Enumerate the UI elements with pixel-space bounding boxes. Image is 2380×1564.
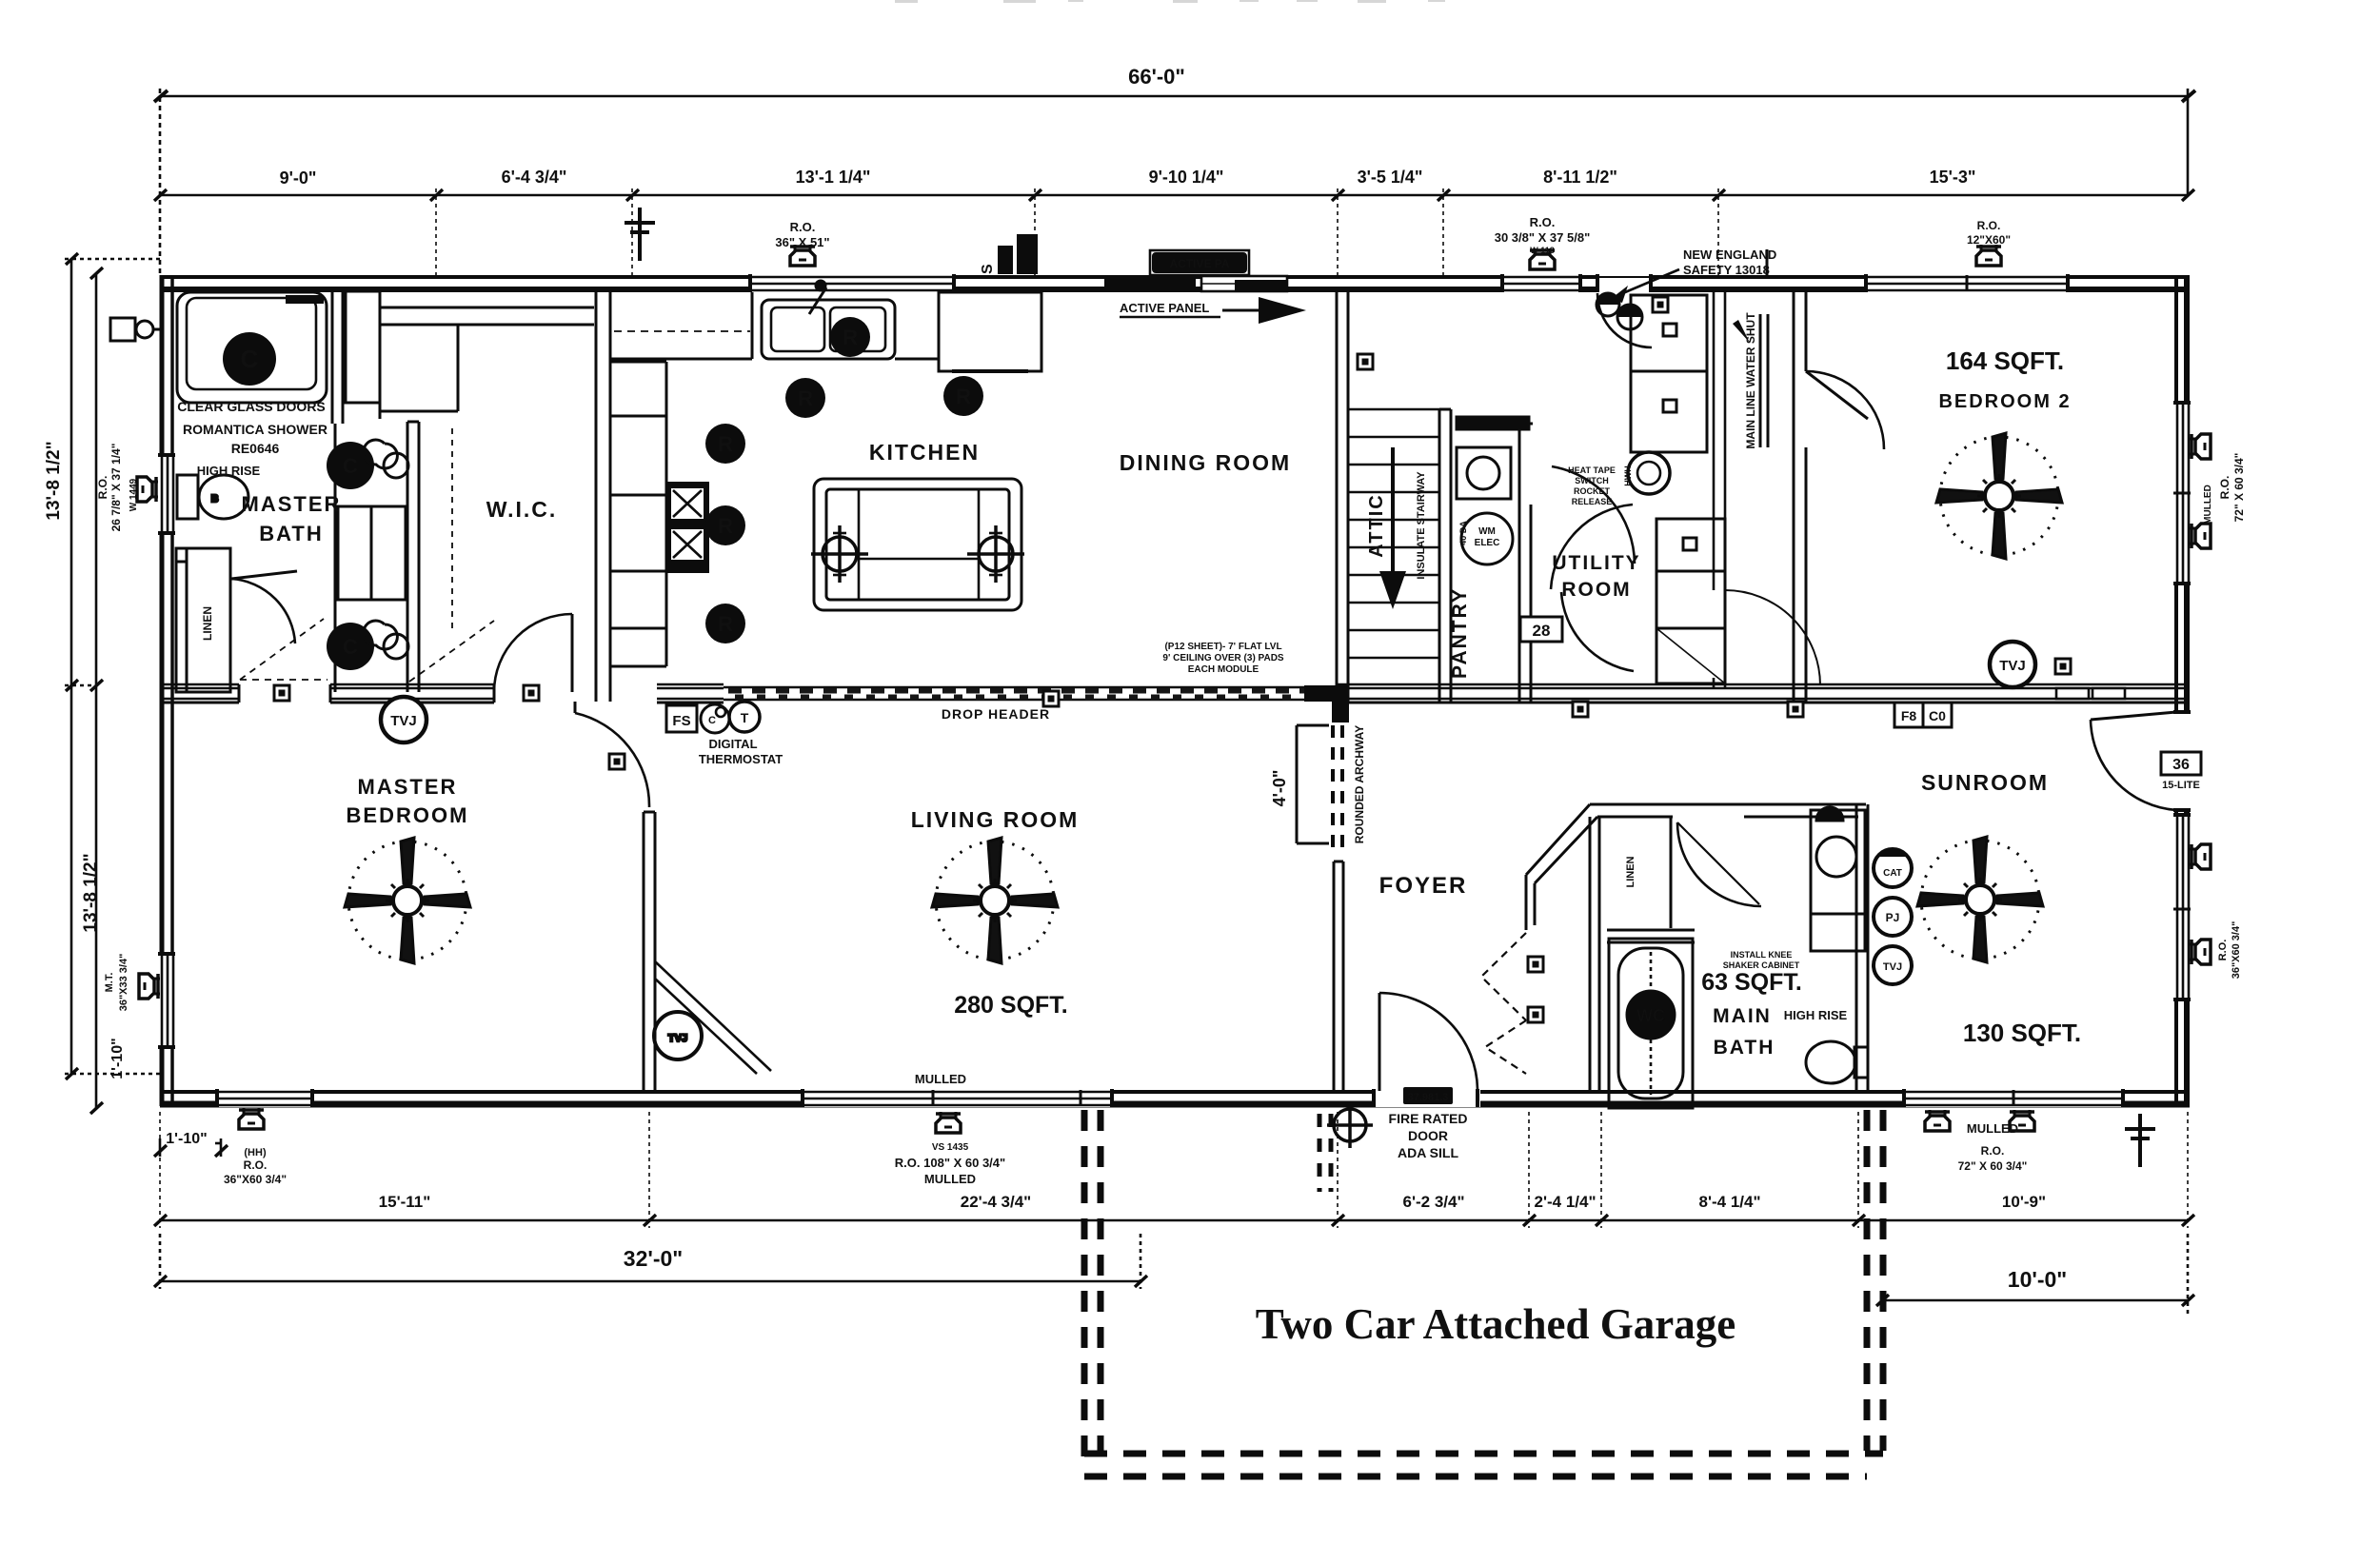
vanity sink upper <box>327 440 408 489</box>
svg-text:10'-9": 10'-9" <box>2002 1193 2046 1211</box>
stair treads <box>1348 409 1439 658</box>
bottom dimension 1'-10" <box>160 1138 221 1157</box>
box 28 <box>1520 617 1562 642</box>
pantry wall right <box>1519 424 1533 702</box>
recessed light kitchen 5 <box>705 604 745 643</box>
wall linen closet master bath <box>176 548 230 692</box>
thermostat trio FS CO T <box>666 702 760 733</box>
svg-text:FOYER: FOYER <box>1379 873 1468 899</box>
svg-text:W 118: W 118 <box>1530 246 1555 255</box>
window crank utility top <box>1530 248 1555 269</box>
door opening right wall sunroom 15-lite <box>2091 712 2192 810</box>
marriage wall band left section <box>160 684 724 703</box>
label mulled bedroom2 right window <box>2203 453 2246 525</box>
kitchen counter right of sink <box>895 292 1041 371</box>
window right wall sunroom <box>2173 815 2191 1000</box>
top segment dimension line <box>160 188 2188 276</box>
svg-text:RELEASE: RELEASE <box>1572 497 1613 506</box>
svg-text:1'-10": 1'-10" <box>166 1131 207 1147</box>
svg-text:ACTIVE PANEL: ACTIVE PANEL <box>1120 301 1209 315</box>
window left wall master bath <box>158 455 175 533</box>
window crank bedroom2 right upper <box>2190 434 2211 459</box>
ceiling fan bedroom2 <box>1936 433 2062 559</box>
outer wall bottom <box>160 1092 2190 1104</box>
svg-text:R.O.: R.O. <box>2217 940 2229 961</box>
svg-text:KITCHEN: KITCHEN <box>869 440 980 465</box>
label shower notes <box>177 399 327 456</box>
label install shaker cabinet <box>1723 950 1800 970</box>
outer wall left <box>162 275 172 1106</box>
svg-text:4'-0": 4'-0" <box>1270 770 1289 807</box>
window bottom wall living room mulled <box>803 1089 1112 1107</box>
kitchen island <box>814 479 1021 610</box>
door label 36 15-LITE <box>2161 752 2201 791</box>
svg-text:6'-2 3/4": 6'-2 3/4" <box>1402 1193 1464 1211</box>
wall hallway-bedroom2 <box>1794 291 1806 702</box>
svg-text:DIGITAL: DIGITAL <box>708 737 757 751</box>
svg-text:R.O.: R.O. <box>1530 215 1556 229</box>
svg-text:S: S <box>980 264 996 274</box>
kitchen cabinets left column <box>610 362 666 666</box>
svg-text:36: 36 <box>2172 757 2190 773</box>
svg-text:C: C <box>343 635 358 659</box>
kitchen sink <box>762 281 895 359</box>
recessed light kitchen 4 <box>705 505 745 545</box>
label mulled sunroom bottom window <box>1958 1121 2028 1173</box>
smoke detectors pair utility <box>1597 293 1642 329</box>
RO 30 3/8 note above utility <box>1495 215 1591 255</box>
svg-text:R.O.: R.O. <box>1981 1144 2005 1158</box>
svg-text:130 SQFT.: 130 SQFT. <box>1963 1019 2081 1047</box>
svg-text:HIGH RISE: HIGH RISE <box>1784 1008 1848 1022</box>
plumbing vent kitchen <box>625 208 655 261</box>
main bath door arc <box>1677 822 1761 906</box>
junction box left wall upper <box>110 318 162 341</box>
svg-text:HEAT TAPE: HEAT TAPE <box>1568 465 1616 475</box>
svg-text:10'-0": 10'-0" <box>2008 1267 2067 1292</box>
label master bedroom <box>347 775 469 827</box>
WIC closet shelf top <box>380 291 594 628</box>
svg-text:BEDROOM 2: BEDROOM 2 <box>1938 391 2071 412</box>
svg-text:ROOM: ROOM <box>1561 579 1631 601</box>
svg-text:164 SQFT.: 164 SQFT. <box>1946 346 2064 375</box>
outer wall right <box>2176 275 2187 1106</box>
svg-text:SWITCH: SWITCH <box>1575 476 1609 485</box>
bottom dimension 32'-0" <box>160 1234 1140 1289</box>
svg-text:15'-3": 15'-3" <box>1930 168 1976 187</box>
window crank left wall bedroom <box>139 974 160 999</box>
svg-text:WC: WC <box>1636 1006 1665 1025</box>
garage dashed wall right <box>1867 1110 1883 1451</box>
window crank master bedroom bottom <box>239 1108 264 1129</box>
new england safety note <box>1611 247 1776 303</box>
svg-text:PJ: PJ <box>1886 911 1900 924</box>
svg-text:NEW ENGLAND: NEW ENGLAND <box>1683 247 1776 262</box>
svg-text:R.O.: R.O. <box>1977 219 2001 232</box>
svg-text:(P12 SHEET)- 7' FLAT LVL: (P12 SHEET)- 7' FLAT LVL <box>1164 642 1281 652</box>
label master bath <box>242 492 342 545</box>
window crank sunroom right upper <box>2190 844 2211 869</box>
attic arrow <box>1366 447 1427 609</box>
plumbing vent dining top SM <box>980 234 1038 274</box>
svg-text:ROCKET: ROCKET <box>1574 486 1611 496</box>
svg-text:30 3/8" X 37 5/8": 30 3/8" X 37 5/8" <box>1495 230 1591 245</box>
svg-text:C: C <box>241 345 259 373</box>
svg-text:EACH MODULE: EACH MODULE <box>1188 664 1259 675</box>
svg-text:MULLED: MULLED <box>2203 485 2213 525</box>
kitchen upper cabinet dashed line <box>614 330 750 332</box>
svg-text:C: C <box>343 454 358 478</box>
main bath north wall <box>1590 804 1866 817</box>
svg-text:MAIN LINE WATER SHUT: MAIN LINE WATER SHUT <box>1744 312 1757 449</box>
svg-text:37.981.3: 37.981.3 <box>1408 1092 1449 1103</box>
ceiling fan sunroom <box>1917 837 2043 962</box>
master bedroom corner shelf <box>654 961 771 1074</box>
svg-text:INSULATE STAIRWAY: INSULATE STAIRWAY <box>1416 471 1427 580</box>
svg-text:63 SQFT.: 63 SQFT. <box>1701 969 1802 996</box>
svg-text:DINING ROOM: DINING ROOM <box>1120 450 1291 475</box>
garage step dashes <box>1319 1114 1331 1192</box>
svg-text:MULLED: MULLED <box>1967 1121 2018 1136</box>
wall WIC left <box>407 422 419 692</box>
svg-text:40 DA: 40 DA <box>1458 521 1468 545</box>
RO 36x51 kitchen window note <box>775 220 829 249</box>
svg-text:CLEAR GLASS DOORS: CLEAR GLASS DOORS <box>177 399 326 414</box>
svg-text:15'-11": 15'-11" <box>379 1193 431 1211</box>
window right wall bedroom2 mulled <box>2173 403 2191 584</box>
main line water shut note <box>1733 312 1768 449</box>
tub main bath <box>1609 939 1693 1108</box>
window bottom wall master bedroom <box>217 1089 312 1107</box>
svg-text:72" X 60 3/4": 72" X 60 3/4" <box>2232 453 2246 523</box>
svg-text:MASTER: MASTER <box>358 775 458 799</box>
wall foyer west <box>1334 861 1343 1092</box>
window crank left wall bath <box>137 477 158 502</box>
RO 12x60 note bedroom2 <box>1967 219 2011 247</box>
active panel arrow note <box>1120 297 1306 324</box>
island pendant symbol left <box>811 525 868 583</box>
svg-text:THERMOSTAT: THERMOSTAT <box>699 752 783 766</box>
svg-text:15-LITE: 15-LITE <box>2162 780 2200 791</box>
front door porch symbol <box>1327 1102 1373 1148</box>
svg-text:UTILITY: UTILITY <box>1552 552 1640 574</box>
window left wall master bedroom <box>158 954 175 1047</box>
label fire rated door <box>1389 1087 1468 1160</box>
outer wall top <box>160 277 2190 289</box>
svg-text:36" X 51": 36" X 51" <box>775 235 829 249</box>
svg-text:BEDROOM: BEDROOM <box>347 803 469 827</box>
bottom dimension 10'-0" <box>1882 1234 2188 1314</box>
svg-text:FS: FS <box>672 713 690 729</box>
pantry washer box <box>1457 417 1529 499</box>
svg-text:9'-0": 9'-0" <box>280 168 317 188</box>
window crank bedroom2 right lower <box>2190 524 2211 548</box>
window crank sunroom bottom left <box>1925 1110 1950 1131</box>
svg-text:C: C <box>708 715 716 726</box>
svg-text:TVJ: TVJ <box>668 1033 687 1044</box>
island pendant symbol right <box>967 525 1024 583</box>
wall living-master bedroom <box>644 812 655 1092</box>
svg-text:HWH: HWH <box>1623 465 1633 486</box>
svg-text:R.O.: R.O. <box>2218 476 2231 500</box>
svg-text:LIVING ROOM: LIVING ROOM <box>911 807 1080 832</box>
svg-text:66'-0": 66'-0" <box>1128 65 1185 89</box>
svg-text:36"X60 3/4": 36"X60 3/4" <box>2231 921 2242 980</box>
shower light C <box>223 332 276 386</box>
door opening bottom wall fire rated door <box>1374 993 1480 1107</box>
svg-text:TVJ: TVJ <box>1883 961 1902 973</box>
sink cabinet main bath <box>1811 807 1865 951</box>
phone jacks column sunroom wall <box>1874 849 1912 984</box>
svg-text:BATH: BATH <box>1714 1037 1775 1059</box>
garage dashed wall left <box>1084 1110 1101 1456</box>
window bottom wall sunroom mulled <box>1904 1089 2123 1107</box>
svg-text:(HH): (HH) <box>244 1147 267 1158</box>
cropped title remnants top <box>895 0 1445 3</box>
svg-text:INSTALL KNEE: INSTALL KNEE <box>1731 950 1793 960</box>
label sunroom right window <box>2217 921 2242 980</box>
stairway right wall <box>1439 409 1451 702</box>
refrigerator dining side counter <box>1041 292 1043 362</box>
svg-text:MULLED: MULLED <box>915 1072 966 1086</box>
recessed light kitchen sink <box>830 317 870 357</box>
svg-text:R.O.: R.O. <box>790 220 816 234</box>
svg-text:LINEN: LINEN <box>201 606 214 641</box>
label heat tape switch <box>1568 465 1616 506</box>
svg-text:ACTIVE PA: ACTIVE PA <box>1169 257 1229 270</box>
vanity sink lower <box>327 621 408 670</box>
vanity master bath <box>335 424 406 692</box>
toilet master bath <box>177 475 248 519</box>
foyer closet bifold doors dashed <box>1481 933 1526 1074</box>
window utility top wall <box>1502 274 1580 292</box>
svg-text:SUNROOM: SUNROOM <box>1921 770 2049 795</box>
svg-text:28: 28 <box>1533 622 1551 640</box>
marriage wall band foyer-right section <box>1336 684 1799 703</box>
rounded archway columns <box>1297 725 1342 850</box>
water heater circle <box>1623 452 1670 494</box>
wall master bath right / shower side <box>332 291 343 424</box>
svg-text:36"X60 3/4": 36"X60 3/4" <box>224 1173 287 1186</box>
label RO master bedroom window <box>224 1147 287 1186</box>
label utility room <box>1552 552 1640 601</box>
WM ELEC circle <box>1458 513 1513 564</box>
ceiling fan living room <box>932 838 1058 963</box>
svg-text:8'-11 1/2": 8'-11 1/2" <box>1543 168 1617 187</box>
kitchen range burners <box>665 482 709 573</box>
utility room door arcs <box>1552 466 1635 564</box>
svg-text:T: T <box>741 710 749 725</box>
svg-text:13'-8 1/2": 13'-8 1/2" <box>81 853 101 932</box>
svg-text:R.O. 108" X 60 3/4": R.O. 108" X 60 3/4" <box>895 1156 1005 1170</box>
svg-text:RE0646: RE0646 <box>231 441 280 456</box>
marriage wall drop header hatched band <box>724 685 1349 723</box>
svg-text:13'-8 1/2": 13'-8 1/2" <box>44 441 64 520</box>
window bedroom2 top wall <box>1866 274 2068 292</box>
svg-text:Two Car Attached Garage: Two Car Attached Garage <box>1256 1300 1736 1348</box>
window crank sunroom right lower <box>2190 940 2211 964</box>
shower master bath <box>177 292 327 403</box>
window crank living room bottom <box>936 1112 961 1133</box>
main bath east wall <box>1856 804 1868 1092</box>
WIC door arc <box>494 614 572 692</box>
svg-text:M.T.: M.T. <box>104 973 115 993</box>
kitchen top counter <box>610 292 752 359</box>
svg-text:LINEN: LINEN <box>1625 856 1636 887</box>
svg-text:SAFETY 13018: SAFETY 13018 <box>1683 263 1770 277</box>
window crank kitchen <box>790 245 815 266</box>
svg-text:WM: WM <box>1478 526 1496 537</box>
label dining ceiling note <box>1162 642 1284 675</box>
digital thermostat note <box>699 737 783 766</box>
svg-text:MASTER: MASTER <box>242 492 342 516</box>
svg-text:C0: C0 <box>1929 708 1946 723</box>
svg-text:R.O.: R.O. <box>96 476 109 500</box>
svg-text:HIGH RISE: HIGH RISE <box>197 464 261 478</box>
svg-text:2'-4 1/4": 2'-4 1/4" <box>1534 1193 1596 1211</box>
master bath door arc <box>231 579 295 643</box>
bottom dimension row 1 <box>160 1112 2188 1228</box>
window crank bedroom2 top <box>1976 245 2001 266</box>
svg-text:MAIN: MAIN <box>1713 1005 1772 1027</box>
wall WIC right / kitchen <box>596 291 610 702</box>
label RO living room window <box>895 1142 1005 1186</box>
svg-text:BATH: BATH <box>259 522 323 545</box>
svg-text:B: B <box>211 494 218 505</box>
svg-text:CAT: CAT <box>1883 868 1902 879</box>
svg-text:VS 1435: VS 1435 <box>932 1142 969 1153</box>
active panel black label <box>1150 250 1249 275</box>
svg-text:PANTRY: PANTRY <box>1449 587 1471 679</box>
svg-text:72" X 60 3/4": 72" X 60 3/4" <box>1958 1159 2028 1173</box>
main bath angled wall <box>1526 804 1597 930</box>
bedroom2 closet door arc <box>1806 371 1884 449</box>
svg-text:1'-10": 1'-10" <box>109 1038 126 1079</box>
wall dining right / stairway left <box>1337 291 1348 702</box>
label main bath <box>1713 1005 1775 1059</box>
svg-text:26 7/8" X 37 1/4": 26 7/8" X 37 1/4" <box>109 444 123 532</box>
svg-text:MULLED: MULLED <box>924 1172 976 1186</box>
window dining top wall dark panels <box>1104 276 1288 291</box>
door top wall utility rear entry <box>1597 274 1652 347</box>
svg-text:9'-10 1/4": 9'-10 1/4" <box>1149 168 1224 187</box>
overall dimension line 66'-0" <box>154 89 2195 276</box>
recessed light kitchen 3 <box>705 424 745 464</box>
svg-text:36"X33 3/4": 36"X33 3/4" <box>118 954 129 1012</box>
svg-text:SHAKER CABINET: SHAKER CABINET <box>1723 960 1800 970</box>
cabinet between shower and WIC <box>346 291 380 403</box>
utility tall cabinet right <box>1656 519 1725 683</box>
svg-text:ATTIC: ATTIC <box>1366 493 1387 557</box>
svg-text:FIRE RATED: FIRE RATED <box>1389 1111 1468 1126</box>
window crank sunroom bottom right <box>2010 1110 2034 1131</box>
linen closet main bath <box>1607 817 1695 942</box>
main bath west wall <box>1590 817 1599 1092</box>
svg-text:ADA SILL: ADA SILL <box>1398 1145 1458 1160</box>
svg-text:9' CEILING OVER (3) PADS: 9' CEILING OVER (3) PADS <box>1162 653 1284 663</box>
svg-text:DROP HEADER: DROP HEADER <box>942 706 1050 722</box>
svg-text:22'-4 3/4": 22'-4 3/4" <box>961 1193 1031 1211</box>
toilet main bath <box>1806 1041 1868 1083</box>
svg-text:R.O.: R.O. <box>244 1158 268 1172</box>
garage dashed wall bottom <box>1084 1454 1883 1476</box>
svg-text:W.I.C.: W.I.C. <box>486 497 558 522</box>
ceiling fan master bedroom <box>345 838 470 963</box>
F8 C0 boxes <box>1894 703 1952 727</box>
svg-text:ELEC: ELEC <box>1475 538 1500 548</box>
svg-text:12"X60": 12"X60" <box>1967 233 2011 247</box>
svg-text:3'-5 1/4": 3'-5 1/4" <box>1358 168 1423 187</box>
plumbing vent sunroom right <box>2125 1114 2155 1167</box>
svg-text:ROMANTICA SHOWER: ROMANTICA SHOWER <box>183 422 327 437</box>
utility closet cabinets upper <box>1631 291 1820 687</box>
outlet boxes along marriage wall <box>274 685 289 701</box>
left dimension line 13'-8 1/2" upper <box>65 259 162 1108</box>
svg-text:6'-4 3/4": 6'-4 3/4" <box>502 168 567 187</box>
master bedroom door arc <box>575 713 649 807</box>
marriage wall band bedroom2-sunroom section <box>1799 684 2190 703</box>
svg-text:280 SQFT.: 280 SQFT. <box>954 992 1068 1019</box>
svg-text:8'-4 1/4": 8'-4 1/4" <box>1698 1193 1760 1211</box>
tvj jack master bedroom <box>381 697 426 742</box>
window kitchen top wall <box>750 274 954 292</box>
svg-text:DOOR: DOOR <box>1408 1128 1448 1143</box>
recessed light kitchen 2 <box>943 376 983 416</box>
svg-text:ROUNDED ARCHWAY: ROUNDED ARCHWAY <box>1353 725 1366 843</box>
svg-text:32'-0": 32'-0" <box>624 1246 683 1271</box>
recessed light kitchen 1 <box>785 378 825 418</box>
tvj jack bedroom2 <box>1990 642 2035 687</box>
svg-text:13'-1 1/4": 13'-1 1/4" <box>796 168 871 187</box>
svg-text:F8: F8 <box>1901 708 1917 723</box>
